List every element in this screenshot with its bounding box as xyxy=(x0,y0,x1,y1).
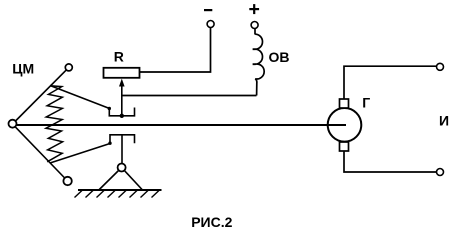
left pivot circle of mechanism xyxy=(9,120,17,128)
shaft line into generator center xyxy=(322,124,346,126)
field winding OV (inductor, 3 turns) xyxy=(255,34,264,95)
resistor R body xyxy=(104,68,140,78)
upper slider bracket (moving contact fork) xyxy=(109,108,134,116)
ground hatching xyxy=(75,190,160,198)
top brush of generator xyxy=(340,99,349,108)
bottom brush of generator xyxy=(340,142,349,151)
ground / foundation line xyxy=(78,189,162,191)
svg-text:Г: Г xyxy=(362,95,370,111)
wire: plus terminal to field winding xyxy=(254,29,256,35)
wire: top brush to upper output terminal xyxy=(344,66,436,103)
lower output terminal circle xyxy=(437,169,444,176)
link rod from upper spring attachment to upper slider xyxy=(50,86,109,109)
upper output terminal circle xyxy=(437,63,444,70)
joint dot at lower link / slider connection xyxy=(108,142,111,145)
pivot circle (fixed hinge) xyxy=(118,164,126,172)
lower lever arm of centrifugal mechanism xyxy=(13,124,68,181)
lower slider bracket (mirror fork) xyxy=(110,135,135,144)
wiper stem with arrowhead pointing to resistor R xyxy=(121,86,123,116)
wire: bottom brush to lower output terminal xyxy=(344,147,436,172)
bottom weight circle of mechanism xyxy=(63,177,71,185)
field winding junction curls xyxy=(253,48,256,50)
minus terminal circle xyxy=(207,21,214,28)
plus sign xyxy=(249,8,259,10)
wire: field winding bottom to wiper stem xyxy=(122,95,257,97)
link rod from lower spring attachment to lower slider xyxy=(50,144,110,164)
svg-text:ЦМ: ЦМ xyxy=(12,60,34,76)
svg-text:ОВ: ОВ xyxy=(269,49,290,65)
pivot support triangle legs xyxy=(99,168,122,191)
junction dot wiper-to-slider xyxy=(120,114,124,118)
svg-text:РИС.2: РИС.2 xyxy=(191,214,232,230)
joint dot at upper link / slider connection xyxy=(108,107,111,110)
plus terminal circle xyxy=(251,22,258,29)
svg-text:R: R xyxy=(114,49,124,65)
minus sign xyxy=(204,9,212,11)
svg-text:И: И xyxy=(439,112,449,128)
top weight circle of mechanism xyxy=(65,64,72,71)
generator armature circle Г xyxy=(328,108,362,142)
wire: main shaft line from left pivot to generator center xyxy=(13,124,347,126)
stem from lower slider down to pivot xyxy=(121,135,123,164)
spring (zigzag) of centrifugal mechanism xyxy=(46,86,63,162)
upper lever arm of centrifugal mechanism xyxy=(13,67,69,124)
wire: resistor right lead to minus terminal xyxy=(140,28,211,72)
